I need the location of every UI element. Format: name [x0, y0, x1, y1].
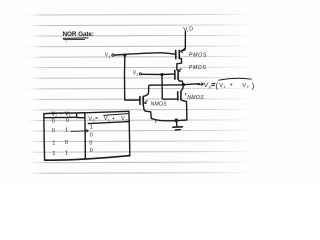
svg-text:0: 0 — [52, 118, 55, 124]
svg-text:NMOS: NMOS — [151, 102, 167, 108]
svg-text:PMOS: PMOS — [189, 53, 207, 59]
svg-text:0: 0 — [90, 133, 93, 139]
svg-text:D: D — [189, 27, 193, 33]
svg-text:=: = — [95, 116, 98, 122]
svg-text:1: 1 — [55, 113, 57, 117]
svg-text:PMOS: PMOS — [189, 65, 207, 71]
svg-text:V: V — [242, 83, 246, 89]
svg-text:0: 0 — [52, 128, 55, 134]
svg-text:1: 1 — [109, 55, 111, 59]
svg-text:1: 1 — [90, 124, 93, 130]
svg-text:0: 0 — [89, 141, 92, 147]
svg-text:V: V — [183, 26, 188, 33]
svg-text:): ) — [252, 81, 255, 90]
svg-text:NMOS: NMOS — [187, 95, 204, 101]
svg-text:2: 2 — [125, 119, 127, 123]
svg-text:0: 0 — [66, 118, 69, 124]
svg-text:2: 2 — [137, 73, 139, 77]
svg-text:+: + — [112, 116, 115, 122]
svg-text:1: 1 — [65, 151, 68, 157]
svg-text:NOR Gate:: NOR Gate: — [63, 31, 94, 38]
svg-text:0: 0 — [90, 148, 93, 154]
svg-text:0: 0 — [65, 140, 68, 146]
svg-text:1: 1 — [65, 127, 68, 133]
svg-text:(: ( — [216, 81, 219, 90]
svg-text:1: 1 — [224, 85, 226, 89]
svg-text:0: 0 — [209, 86, 211, 90]
svg-text:+: + — [230, 83, 233, 89]
svg-text:1: 1 — [52, 151, 55, 157]
svg-text:2: 2 — [69, 113, 71, 117]
svg-text:2: 2 — [247, 85, 249, 89]
svg-text:1: 1 — [108, 119, 110, 123]
svg-text:V: V — [121, 116, 125, 122]
svg-text:1: 1 — [52, 140, 55, 146]
